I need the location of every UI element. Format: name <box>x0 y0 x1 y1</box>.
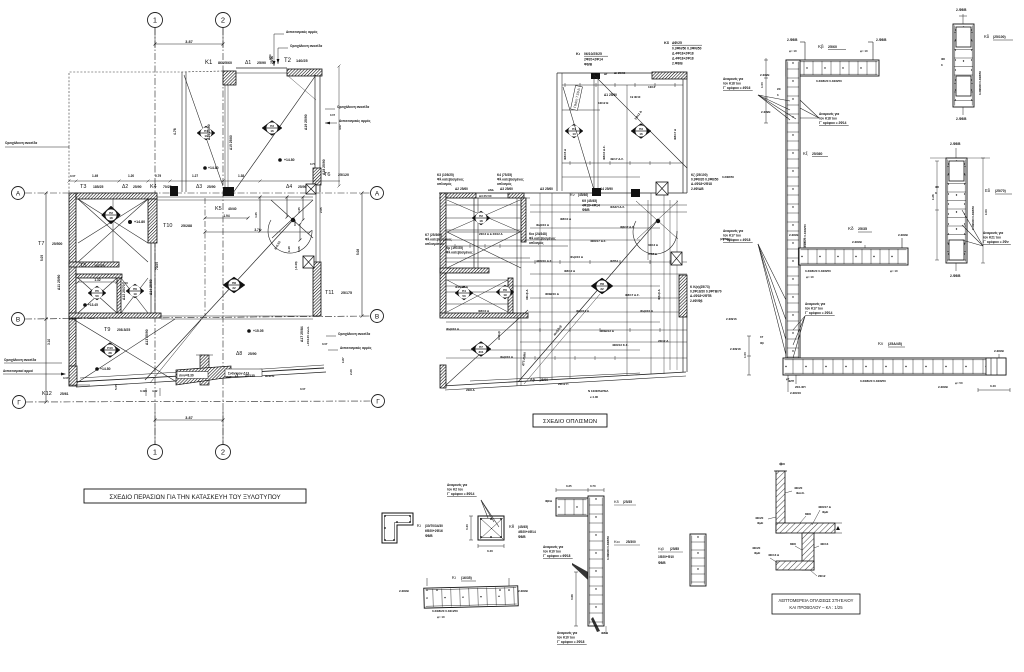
svg-text:8Φ8: 8Φ8 <box>790 542 796 546</box>
svg-text:140/25: 140/25 <box>296 59 308 63</box>
svg-text:φ= 10: φ= 10 <box>437 615 445 619</box>
svg-text:K3 (105/25): K3 (105/25) <box>437 173 454 177</box>
svg-text:0.95: 0.95 <box>297 246 301 252</box>
svg-text:0.70: 0.70 <box>590 484 596 488</box>
grid line B <box>25 316 370 319</box>
svg-text:Δ11 25/90: Δ11 25/90 <box>57 274 61 290</box>
svg-text:δΤ: δΤ <box>760 335 764 339</box>
svg-text:3Φ8: 3Φ8 <box>779 462 785 466</box>
svg-text:4Φ/20: 4Φ/20 <box>755 516 764 520</box>
svg-text:25/500: 25/500 <box>52 242 62 246</box>
middle right wall lower line <box>682 317 684 372</box>
label box D13 <box>225 369 262 377</box>
svg-text:Δ.4Φ18+2Φ18: Δ.4Φ18+2Φ18 <box>672 52 694 56</box>
svg-text:T3: T3 <box>80 184 86 190</box>
svg-text:2Φ12: 2Φ12 <box>818 574 826 578</box>
column filled grid A x170 <box>170 186 178 196</box>
tick marks bottom <box>145 388 147 396</box>
K9 bottom left hooks <box>787 375 789 392</box>
svg-text:0.07: 0.07 <box>322 342 328 346</box>
svg-text:25/300: 25/300 <box>626 540 636 544</box>
svg-text:Φλ κατεβασμένος: Φλ κατεβασμένος <box>437 177 464 181</box>
svg-text:50: 50 <box>95 294 99 298</box>
svg-text:208.5/25: 208.5/25 <box>117 328 130 332</box>
svg-text:Δ.4Φ18+2ΦΤΒ: Δ.4Φ18+2ΦΤΒ <box>690 294 712 298</box>
slab horizontal <box>776 523 835 533</box>
svg-text:K12: K12 <box>42 391 52 397</box>
rotated tag box <box>571 85 583 110</box>
middle wall top <box>446 193 476 198</box>
svg-text:2.05: 2.05 <box>319 207 323 213</box>
svg-text:2-Φ8/Β: 2-Φ8/Β <box>761 110 770 114</box>
column K7 elevation <box>786 60 800 375</box>
svg-text:1Φ20+Φ10: 1Φ20+Φ10 <box>658 555 674 559</box>
extra hook ticks <box>454 244 456 248</box>
svg-text:Δ.4Φ18+2Φ18: Δ.4Φ18+2Φ18 <box>691 182 712 186</box>
svg-text:Ορειχάλκινη ανοσίδα: Ορειχάλκινη ανοσίδα <box>290 44 322 48</box>
svg-text:Kι: Kι <box>452 575 456 580</box>
svg-text:4Φ8/10 Δ.Σ.: 4Φ8/10 Δ.Σ. <box>536 259 552 263</box>
svg-text:2-Φ8/Β: 2-Φ8/Β <box>760 73 769 77</box>
diamond P3/16 <box>262 121 282 136</box>
svg-text:0.3Φ8/50: 0.3Φ8/50 <box>722 175 734 179</box>
svg-text:86/25/60: 86/25/60 <box>218 61 232 65</box>
svg-text:φ= 50: φ= 50 <box>955 381 963 385</box>
black column middle mid <box>592 188 601 196</box>
svg-text:Δ1 25/90: Δ1 25/90 <box>604 93 617 97</box>
svg-text:Δ12 25/70: Δ12 25/70 <box>122 284 126 300</box>
lower room diagonals <box>73 319 180 384</box>
svg-text:0.70: 0.70 <box>310 162 316 166</box>
svg-text:Φ8/Β: Φ8/Β <box>425 534 433 538</box>
svg-text:+13.45: +13.45 <box>88 303 98 307</box>
hooks K1 ends <box>426 589 428 591</box>
dim small rooms <box>78 281 117 283</box>
dim 3.76 <box>205 231 310 233</box>
svg-text:Π8: Π8 <box>600 282 604 286</box>
wall left below B <box>69 319 76 385</box>
svg-text:Δ19 25/90: Δ19 25/90 <box>304 114 308 130</box>
svg-text:8Φ8: 8Φ8 <box>805 512 811 516</box>
dim row above A <box>69 180 340 182</box>
svg-text:0.3ΦΝ/50 0.3ΦΝ/50: 0.3ΦΝ/50 0.3ΦΝ/50 <box>672 47 702 51</box>
svg-text:Kδ: Kδ <box>848 226 854 231</box>
svg-text:0.2Φ8/20 0.3Φ8/50: 0.2Φ8/20 0.3Φ8/50 <box>860 379 886 383</box>
svg-text:49/17 Δ.Σ.: 49/17 Δ.Σ. <box>610 157 624 161</box>
wall right middle hatch <box>313 262 321 316</box>
svg-text:ΦΖΠΑ: ΦΖΠΑ <box>610 259 619 263</box>
column filled grid A x223 <box>223 187 234 196</box>
wall lower horizontal <box>76 274 122 278</box>
middle right xboxes <box>656 182 668 195</box>
svg-text:18: 18 <box>109 216 113 220</box>
svg-text:2-Φ8/16: 2-Φ8/16 <box>726 317 737 321</box>
grid circle A right <box>371 187 384 200</box>
svg-text:ΣΧΕΔΙΟ ΟΠΛΙΣΜΩΝ: ΣΧΕΔΙΟ ΟΠΛΙΣΜΩΝ <box>543 419 597 425</box>
svg-text:22: 22 <box>600 287 604 291</box>
svg-text:Kδ: Kδ <box>984 34 990 39</box>
svg-text:(25Α/45): (25Α/45) <box>888 342 903 346</box>
svg-text:Φβ: Φβ <box>760 341 764 345</box>
svg-text:Δ1: Δ1 <box>245 60 251 66</box>
svg-text:T5: T5 <box>80 263 86 269</box>
svg-text:+14.80: +14.80 <box>100 367 111 371</box>
small room diagonals <box>78 278 117 313</box>
svg-text:Π8: Π8 <box>232 281 236 285</box>
middle big diagonal <box>518 220 658 382</box>
svg-text:Εδ: Εδ <box>985 188 991 193</box>
svg-text:Π2: Π2 <box>109 211 113 215</box>
svg-text:5.05: 5.05 <box>114 384 118 390</box>
dims K8 <box>470 516 472 540</box>
svg-text:(45/45): (45/45) <box>518 525 528 529</box>
svg-text:1.38: 1.38 <box>238 174 244 178</box>
beam K9 elevation <box>783 358 1006 375</box>
svg-text:Γˉ ορόφου = 2Φ18: Γˉ ορόφου = 2Φ18 <box>557 640 585 644</box>
svg-text:Δ3: Δ3 <box>196 184 202 190</box>
svg-text:25/90: 25/90 <box>248 352 257 356</box>
diamond P5/50 <box>88 286 106 300</box>
svg-text:2: 2 <box>221 448 225 457</box>
K2 top hook <box>962 14 964 24</box>
svg-text:τον Κ10 του: τον Κ10 του <box>557 636 575 640</box>
svg-text:ΔΤ: ΔΤ <box>604 72 608 76</box>
svg-text:(30/70/34/30: (30/70/34/30 <box>425 524 443 528</box>
beam K1 elevation bottom <box>424 586 518 608</box>
door arc <box>268 220 312 253</box>
svg-text:25/175: 25/175 <box>341 291 352 295</box>
svg-text:οπλισμός: οπλισμός <box>437 182 452 186</box>
svg-text:Φ8/17 Δ: Φ8/17 Δ <box>673 128 677 140</box>
beam K9 right end detail <box>986 358 1006 375</box>
svg-text:ΛΕΠΤΟΜΕΡΕΙΑ ΟΠΛΙΣΕΩΣ ΣΤΗΈΑΙΟΥ: ΛΕΠΤΟΜΕΡΕΙΑ ΟΠΛΙΣΕΩΣ ΣΤΗΈΑΙΟΥ <box>779 598 854 603</box>
svg-text:Kι: Kι <box>576 52 580 56</box>
svg-text:2-Φ8/Β: 2-Φ8/Β <box>399 589 410 593</box>
svg-text:Δ2 25/60: Δ2 25/60 <box>455 187 468 191</box>
grid circle B right <box>371 310 384 323</box>
svg-text:Φ8/10 Δ: Φ8/10 Δ <box>560 217 572 221</box>
svg-text:4Φ/20: 4Φ/20 <box>752 546 761 550</box>
svg-text:2Φ8 Δ: 2Φ8 Δ <box>466 388 476 392</box>
staircase vertical hatched column <box>200 355 209 385</box>
svg-text:δ: δ <box>935 191 937 195</box>
svg-text:Φκβ/10 Δ: Φκβ/10 Δ <box>500 355 514 359</box>
middle main verticals <box>516 198 518 386</box>
beam K3 end hooks <box>804 42 806 60</box>
dimension 3.87 top <box>155 43 223 45</box>
svg-text:Φλ κατεβασμένος: Φλ κατεβασμένος <box>497 177 524 181</box>
svg-text:ΦμΕ: ΦμΕ <box>822 510 828 514</box>
middle second diagonal <box>445 310 528 386</box>
svg-text:2.20: 2.20 <box>349 369 353 375</box>
middle wall small vertical <box>508 278 513 313</box>
svg-text:0.07: 0.07 <box>330 113 336 117</box>
svg-text:4Φ/13 Δ: 4Φ/13 Δ <box>768 553 780 557</box>
svg-text:Γˉ ορόφου = 2Φ14: Γˉ ορόφου = 2Φ14 <box>805 311 833 315</box>
title box reinforcement <box>533 414 607 427</box>
svg-text:25/120: 25/120 <box>338 173 349 177</box>
svg-text:Αναμονές για: Αναμονές για <box>983 231 1003 235</box>
svg-text:Φβνβ Δ: Φβνβ Δ <box>657 288 661 300</box>
svg-text:301: 301 <box>478 350 483 354</box>
diamond P3/16 middle <box>631 124 651 139</box>
svg-text:Π10: Π10 <box>107 346 113 350</box>
svg-text:2Φ1.ΦΠ: 2Φ1.ΦΠ <box>795 385 806 389</box>
svg-text:Δ17 25/84: Δ17 25/84 <box>300 326 304 342</box>
svg-text:Δ8: Δ8 <box>236 351 242 357</box>
svg-text:Kν: Kν <box>878 341 884 346</box>
beam line top <box>236 67 287 69</box>
level mark upper <box>203 166 207 170</box>
svg-text:T10: T10 <box>163 223 172 229</box>
middle wall bottom <box>440 313 528 318</box>
grid circle Gamma left <box>13 396 26 409</box>
svg-text:16: 16 <box>639 132 643 136</box>
wall T6 hatched block <box>313 168 321 185</box>
K2 bottom hook <box>962 107 964 115</box>
svg-text:Φ8/15 Δ: Φ8/15 Δ <box>563 148 567 160</box>
svg-text:2-Φ8/Β: 2-Φ8/Β <box>518 589 529 593</box>
svg-text:Ορειχάλκινη ανοσίδα: Ορειχάλκινη ανοσίδα <box>338 332 370 336</box>
svg-text:(25/100): (25/100) <box>993 35 1006 39</box>
beam K4 stub and column K10 <box>556 498 588 516</box>
svg-text:0.79: 0.79 <box>155 174 161 178</box>
svg-text:0.66: 0.66 <box>570 594 574 600</box>
grid line 2 vertical <box>222 28 224 444</box>
svg-text:Δί 25/60: Δί 25/60 <box>614 71 626 75</box>
svg-text:Φνβ/10 Δ: Φνβ/10 Δ <box>570 255 584 259</box>
svg-text:φ= 10: φ= 10 <box>806 275 814 279</box>
svg-text:ΗΓΏ: ΗΓΏ <box>268 54 272 60</box>
svg-text:42/135: 42/135 <box>245 374 255 378</box>
svg-text:Φ8/Β: Φ8/Β <box>518 535 526 539</box>
svg-text:2-Φ8/Β: 2-Φ8/Β <box>994 349 1005 353</box>
title box formwork plan <box>84 489 306 503</box>
svg-text:0.07: 0.07 <box>70 174 76 178</box>
beam K1 vertical lines <box>181 72 183 192</box>
title box detail <box>772 594 860 614</box>
svg-text:2.4Φ/Φβ: 2.4Φ/Φβ <box>690 299 703 303</box>
K5 column line dashed <box>204 198 206 316</box>
svg-text:Αναμονές για: Αναμονές για <box>557 631 577 635</box>
svg-text:25/90: 25/90 <box>133 185 142 189</box>
svg-text:Φ8/Β: Φ8/Β <box>601 631 609 635</box>
svg-text:φΤ: φΤ <box>786 378 790 381</box>
svg-text:4Φ8/13 Κ.Σ.: 4Φ8/13 Κ.Σ. <box>612 343 629 347</box>
svg-text:1.03: 1.03 <box>984 209 988 215</box>
svg-text:4.78: 4.78 <box>173 128 177 135</box>
wall T5 horizontal <box>69 262 119 267</box>
svg-text:K5: K5 <box>215 206 222 212</box>
svg-text:0.495: 0.495 <box>140 389 147 393</box>
grid line A <box>25 192 370 194</box>
svg-text:3Φνβ Δ: 3Φνβ Δ <box>525 289 529 300</box>
bottom left slab corner <box>69 384 90 386</box>
svg-text:οπλισμάτων: οπλισμάτων <box>425 242 444 246</box>
svg-text:τον Κ17 του: τον Κ17 του <box>805 307 823 311</box>
dims above K10 <box>556 489 588 491</box>
svg-text:1.00: 1.00 <box>760 82 764 88</box>
parapet wall vertical <box>776 471 785 533</box>
grid line 1 vertical <box>154 28 156 444</box>
svg-text:Kν: Kν <box>570 192 575 197</box>
svg-text:Γˉ ορόφου = 8Φ14: Γˉ ορόφου = 8Φ14 <box>447 492 475 496</box>
svg-text:25/90: 25/90 <box>257 61 266 65</box>
svg-text:Δ3 25/60: Δ3 25/60 <box>500 187 513 191</box>
middle upper extra bars <box>562 162 683 164</box>
svg-text:Γˉ ορόφου = 2Φν: Γˉ ορόφου = 2Φν <box>983 240 1009 244</box>
room1 cross diagonals <box>78 199 148 243</box>
diamond P8/22 middle <box>591 278 613 294</box>
grid circle 2 top <box>216 13 231 28</box>
svg-text:Φκβ/10 Δ: Φκβ/10 Δ <box>536 223 550 227</box>
svg-text:18: 18 <box>479 219 483 223</box>
svg-text:1.87: 1.87 <box>341 357 345 363</box>
svg-text:6Φ20+2Φ16: 6Φ20+2Φ16 <box>425 529 443 533</box>
svg-text:1: 1 <box>153 448 157 457</box>
svg-text:+14.80: +14.80 <box>134 220 145 224</box>
svg-text:2Φ12 Δ: 2Φ12 Δ <box>658 339 669 343</box>
svg-text:Δεκετε: Δεκετε <box>265 374 275 378</box>
svg-text:Αναμονές για: Αναμονές για <box>723 229 743 233</box>
svg-text:Φ8/10 Δ: Φ8/10 Δ <box>478 309 490 313</box>
svg-text:4Φ20+4Φ14: 4Φ20+4Φ14 <box>518 530 536 534</box>
svg-text:1.20: 1.20 <box>128 174 134 178</box>
beam K4 elevation <box>799 248 908 265</box>
svg-text:187/25: 187/25 <box>94 264 104 268</box>
diamond P2/18 middle <box>472 211 490 225</box>
wall hatched middle top right <box>652 72 687 79</box>
middle upper diagonal 2 <box>563 87 594 190</box>
svg-text:3Φ12 Δ: 3Φ12 Δ <box>648 243 658 247</box>
svg-text:2Φ20+2Φ14: 2Φ20+2Φ14 <box>584 58 603 62</box>
svg-text:2-Φ8/Β: 2-Φ8/Β <box>950 274 961 278</box>
svg-text:2: 2 <box>221 16 225 25</box>
svg-text:Φβ/Δ: Φβ/Δ <box>545 499 552 503</box>
svg-text:Φ8/10 Δ.Σ.: Φ8/10 Δ.Σ. <box>602 145 606 160</box>
beam lines along A right part <box>157 196 313 198</box>
svg-text:ΦΝΒ/13 Δ: ΦΝΒ/13 Δ <box>600 329 615 333</box>
svg-text:ΔΦ/25: ΔΦ/25 <box>672 41 682 45</box>
svg-text:Kζ (25/100): Kζ (25/100) <box>691 173 708 177</box>
svg-text:Kιο (24/348): Kιο (24/348) <box>529 232 547 236</box>
svg-text:(45/46): (45/46) <box>578 193 588 197</box>
diamond P2/18 <box>102 206 121 224</box>
svg-text:Λ/Φνβ: Λ/Φνβ <box>497 331 501 340</box>
svg-text:ΦΝΒ/10 Δ: ΦΝΒ/10 Δ <box>545 292 560 296</box>
grid circle A left <box>12 187 25 200</box>
svg-text:(-0.40): (-0.40) <box>294 261 298 270</box>
svg-text:Kμ (197/25): Kμ (197/25) <box>446 246 463 250</box>
svg-text:τον Κ18 του: τον Κ18 του <box>723 82 741 86</box>
level mark main <box>247 329 251 333</box>
svg-text:2-Φ8/Β: 2-Φ8/Β <box>938 385 949 389</box>
svg-text:1Φ12: 1Φ12 <box>648 85 656 89</box>
svg-text:Φ8/Β: Φ8/Β <box>658 561 666 565</box>
wall B thick <box>69 313 161 318</box>
svg-text:K7 (25/360): K7 (25/360) <box>425 233 442 237</box>
wall thin right of room1 <box>150 243 152 313</box>
svg-text:4Φ/20: 4Φ/20 <box>794 486 803 490</box>
svg-text:2-Φ8/Β: 2-Φ8/Β <box>950 142 961 146</box>
svg-text:2-Φ8/Β: 2-Φ8/Β <box>956 117 967 121</box>
svg-text:Αναμονές για: Αναμονές για <box>723 77 743 81</box>
svg-text:δ: δ <box>941 63 943 67</box>
level mark lower <box>95 367 99 371</box>
column below <box>802 533 814 570</box>
diamond P10/28 <box>100 343 120 358</box>
svg-text:4.32: 4.32 <box>152 389 158 393</box>
svg-text:2-Φ8/Β: 2-Φ8/Β <box>956 8 967 12</box>
svg-text:οπλισμός: οπλισμός <box>529 241 544 245</box>
svg-text:Δ4 25/90: Δ4 25/90 <box>600 187 613 191</box>
svg-text:0.3Φ8/20 0.3Φ8/50: 0.3Φ8/20 0.3Φ8/50 <box>978 71 982 95</box>
column K2 elevation top right <box>953 24 974 107</box>
svg-text:κ 4.06: κ 4.06 <box>590 395 598 399</box>
svg-text:Φ8/Β: Φ8/Β <box>584 63 593 67</box>
svg-text:2-Φ8/Β: 2-Φ8/Β <box>876 38 887 42</box>
bottom slab <box>776 561 814 570</box>
svg-text:0.3Φ8/20 0.3Φ8/50: 0.3Φ8/20 0.3Φ8/50 <box>816 79 842 83</box>
svg-text:Kθ: Kθ <box>509 524 515 529</box>
svg-text:Γ: Γ <box>376 398 380 405</box>
svg-text:Δ3 25/ 60: Δ3 25/ 60 <box>479 194 492 198</box>
column xbox right <box>303 256 314 268</box>
svg-text:0.3Φ8/20 0.3Φ8/50: 0.3Φ8/20 0.3Φ8/50 <box>606 536 610 560</box>
svg-text:τον Κ2 του: τον Κ2 του <box>447 488 463 492</box>
svg-text:2-Φ8/Β: 2-Φ8/Β <box>852 240 863 244</box>
middle arc <box>633 221 677 254</box>
dim right K9 <box>978 389 1010 391</box>
svg-text:Kιβ: Kιβ <box>658 546 665 551</box>
svg-text:φ= 10: φ= 10 <box>789 49 797 53</box>
grid circle B left <box>12 313 25 326</box>
svg-text:Γ: Γ <box>17 399 21 406</box>
K6 top hook <box>955 148 957 158</box>
svg-text:Ν 1Φ/ΦΠΔΠΝΑ: Ν 1Φ/ΦΠΔΠΝΑ <box>588 389 609 393</box>
svg-text:Γˉ ορόφου = 6Φ18: Γˉ ορόφου = 6Φ18 <box>543 554 571 558</box>
svg-text:0.2Φ18/20 0.3ΦΤΒ/70: 0.2Φ18/20 0.3ΦΤΒ/70 <box>690 290 722 294</box>
svg-text:Φβ/17 Δ.Σ.: Φβ/17 Δ.Σ. <box>620 225 635 229</box>
room1 lower cross <box>78 199 148 262</box>
dim line left vertical <box>45 193 47 319</box>
svg-text:Ορειχάλκινη ανοσίδα: Ορειχάλκινη ανοσίδα <box>5 141 37 145</box>
section K12 column <box>690 534 706 586</box>
svg-text:(25/85: (25/85 <box>670 547 679 551</box>
svg-text:25/90: 25/90 <box>207 185 216 189</box>
svg-text:Π3: Π3 <box>270 124 274 128</box>
slab boundary dashed outline <box>69 71 223 147</box>
svg-text:Δ15 25/80: Δ15 25/80 <box>229 135 233 150</box>
dim left K10 <box>575 572 577 626</box>
svg-text:Φ8/17 Δ.Σ.: Φ8/17 Δ.Σ. <box>625 293 640 297</box>
middle room diagonals <box>447 200 521 232</box>
middle room bars horizontal <box>446 204 521 206</box>
svg-text:ΦμΕ: ΦμΕ <box>754 551 760 555</box>
svg-text:2.4Φ/ΔΒ: 2.4Φ/ΔΒ <box>691 187 704 191</box>
svg-text:+14.80: +14.80 <box>284 158 295 162</box>
svg-text:Αναμονές για: Αναμονές για <box>543 545 563 549</box>
svg-text:Δβ: Δβ <box>530 378 536 382</box>
detail small marks <box>835 522 842 524</box>
diamond P6/19 middle <box>496 285 514 299</box>
svg-text:1.49: 1.49 <box>92 174 98 178</box>
middle upper verticals <box>593 73 595 193</box>
wall vertical small <box>117 278 121 313</box>
grid circle 2 bottom <box>216 445 231 460</box>
svg-text:Π4: Π4 <box>462 289 466 293</box>
svg-text:Kι: Kι <box>417 523 421 528</box>
